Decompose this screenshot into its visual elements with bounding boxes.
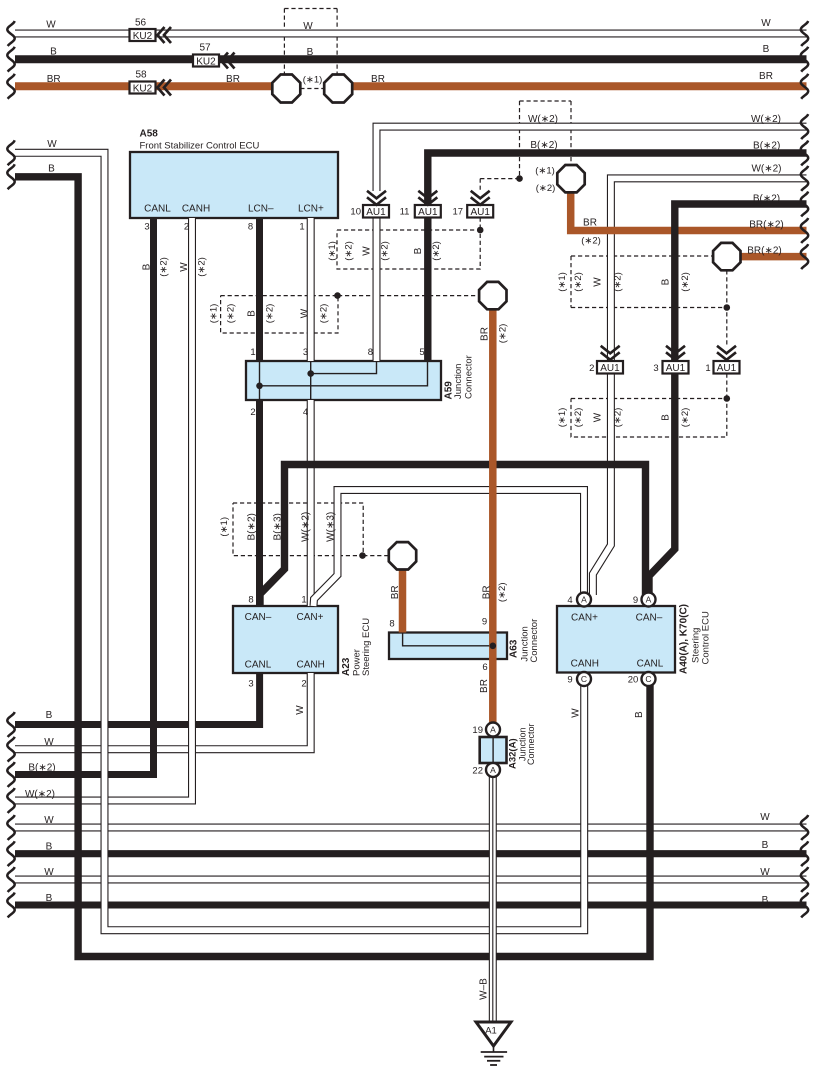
wire B CAN trunk A40 pin9A to A23 pin8 xyxy=(260,465,646,607)
svg-text:W: W xyxy=(47,139,57,150)
svg-text:BR: BR xyxy=(226,74,240,85)
svg-text:A: A xyxy=(581,595,587,605)
A40 pin 20C circle xyxy=(642,672,656,686)
svg-text:10: 10 xyxy=(350,207,361,218)
A32 internal divider xyxy=(492,737,494,763)
connector AU1 pin 11 box xyxy=(415,205,441,218)
wire B from top-left to A40 CANL pin 20C xyxy=(15,177,650,957)
A58 Front Stabilizer Control ECU box xyxy=(130,152,338,218)
dashed option box top right (W(*2)/B(*2)) xyxy=(520,100,572,102)
break squiggle right y=827.5 xyxy=(801,815,808,840)
svg-text:(∗2): (∗2) xyxy=(319,304,330,324)
svg-text:Front Stabilizer Control ECU: Front Stabilizer Control ECU xyxy=(140,141,260,152)
svg-text:2: 2 xyxy=(250,407,255,418)
dashed option box above A23 xyxy=(233,503,363,556)
svg-text:W: W xyxy=(362,246,373,256)
wire BR(*2) short from octagon E3 xyxy=(740,253,806,261)
A63 internal link pin8 to pin9/6 xyxy=(403,633,493,646)
svg-text:B: B xyxy=(246,310,257,317)
svg-text:BR: BR xyxy=(480,327,491,341)
svg-text:B: B xyxy=(142,263,153,270)
svg-text:KU2: KU2 xyxy=(196,56,216,67)
svg-text:4: 4 xyxy=(303,407,308,418)
svg-text:(∗2): (∗2) xyxy=(497,583,508,603)
svg-text:(∗1): (∗1) xyxy=(219,517,230,537)
svg-text:6: 6 xyxy=(482,662,487,673)
svg-text:A58: A58 xyxy=(140,129,159,140)
svg-text:3: 3 xyxy=(144,222,149,233)
svg-text:BR: BR xyxy=(47,74,61,85)
svg-text:3: 3 xyxy=(653,363,658,374)
svg-text:W: W xyxy=(593,412,604,422)
connector AU1 pin 3 box xyxy=(663,361,689,374)
A23 Power Steering ECU box xyxy=(233,606,338,673)
svg-text:17: 17 xyxy=(453,207,464,218)
wire BR long from octagon E2 through A63 to A32 pin 19 xyxy=(489,309,497,723)
junction dot inside A63 xyxy=(490,643,497,650)
svg-text:B: B xyxy=(46,842,53,853)
dashed junction dot at A58 option box corner xyxy=(334,292,341,299)
svg-text:B: B xyxy=(46,893,53,904)
break squiggle right y=153 xyxy=(801,141,808,166)
svg-text:B: B xyxy=(661,414,672,421)
svg-text:AU1: AU1 xyxy=(600,363,620,374)
svg-text:BR: BR xyxy=(759,71,773,82)
svg-text:(∗2): (∗2) xyxy=(581,236,601,247)
svg-text:W(∗2): W(∗2) xyxy=(25,789,55,800)
A59 internal junction dot lower xyxy=(256,383,263,390)
svg-text:B(∗2): B(∗2) xyxy=(246,513,257,540)
svg-text:B: B xyxy=(46,710,53,721)
svg-text:W: W xyxy=(760,812,770,823)
break squiggle right y=33.5 xyxy=(801,21,808,46)
A63 junction connector box xyxy=(389,633,507,660)
break squiggle left y=905 xyxy=(7,893,14,918)
svg-text:A: A xyxy=(490,765,496,775)
svg-text:W: W xyxy=(303,21,313,32)
break squiggle left y=152.8 xyxy=(7,140,14,165)
dashed junction dot below octagon E3 xyxy=(724,304,731,311)
shield octagon E2 mid xyxy=(479,282,506,309)
svg-text:B: B xyxy=(661,278,672,285)
dashed horizontal to AU1 17 xyxy=(480,178,519,180)
svg-text:AU1: AU1 xyxy=(666,363,686,374)
svg-text:(∗2): (∗2) xyxy=(612,272,623,292)
svg-text:W: W xyxy=(295,705,306,715)
dashed stub into AU1 17 chevron xyxy=(479,179,481,191)
svg-text:Connector: Connector xyxy=(529,619,540,663)
svg-text:B: B xyxy=(48,164,55,175)
svg-text:56: 56 xyxy=(135,18,147,29)
svg-text:(∗2): (∗2) xyxy=(197,257,208,277)
svg-text:22: 22 xyxy=(472,765,483,776)
svg-text:C: C xyxy=(581,674,587,684)
svg-text:CANL: CANL xyxy=(637,659,664,670)
svg-text:CAN+: CAN+ xyxy=(297,612,324,623)
connector AU1 pin 1 box xyxy=(714,361,740,374)
dashed link to shield octagon E4 xyxy=(363,555,389,557)
svg-text:4: 4 xyxy=(567,595,572,606)
svg-text:(∗2): (∗2) xyxy=(431,241,442,261)
wire W bus line 7 xyxy=(15,876,807,884)
svg-text:W(∗3): W(∗3) xyxy=(325,512,336,542)
svg-text:(∗2): (∗2) xyxy=(498,324,509,344)
break squiggle right y=230.5 xyxy=(801,218,808,243)
break squiggle left y=853.7 xyxy=(7,841,14,866)
A32(A) junction connector box xyxy=(480,737,507,763)
chevron at KU2 56 xyxy=(158,27,172,43)
svg-text:KU2: KU2 xyxy=(133,31,153,42)
break squiggle left y=774.5 xyxy=(7,762,14,787)
svg-text:B: B xyxy=(762,840,769,851)
svg-text:A: A xyxy=(646,595,652,605)
svg-text:(∗2): (∗2) xyxy=(226,304,237,324)
svg-text:W: W xyxy=(300,308,311,318)
svg-text:W(∗2): W(∗2) xyxy=(528,114,558,125)
svg-text:W: W xyxy=(44,867,54,878)
A40 pin 9C circle xyxy=(577,672,591,686)
break squiggle right y=59.2 xyxy=(801,47,808,72)
dashed stub below AU1 1 xyxy=(726,374,728,399)
svg-text:11: 11 xyxy=(400,207,410,218)
shield octagon E3 right xyxy=(713,243,740,270)
svg-text:BR: BR xyxy=(390,585,401,599)
wire B A58 LCN- pin 8 to A59 pin 1 xyxy=(256,218,263,361)
svg-text:(∗1): (∗1) xyxy=(208,304,219,324)
svg-text:2: 2 xyxy=(589,363,594,374)
break squiggle right y=256.6 xyxy=(801,244,808,269)
wire BR top bus right segment xyxy=(352,82,807,90)
ground A1 symbol xyxy=(476,1022,511,1065)
svg-text:BR: BR xyxy=(583,218,597,229)
svg-text:CANL: CANL xyxy=(245,659,272,670)
svg-text:AU1: AU1 xyxy=(717,363,737,374)
svg-text:B: B xyxy=(762,895,769,906)
connector AU1 pin 10 box xyxy=(363,205,389,218)
A59 internal link pin8 to pin3/4 xyxy=(311,361,377,374)
svg-text:(∗2): (∗2) xyxy=(680,408,691,428)
svg-text:BR(∗2): BR(∗2) xyxy=(747,246,782,257)
wire B A59 pin2 to A23 CAN- pin 8 xyxy=(256,400,263,606)
break squiggle right y=879.5 xyxy=(801,867,808,892)
svg-text:1: 1 xyxy=(301,595,306,606)
A59 junction connector box xyxy=(246,361,441,400)
svg-text:BR: BR xyxy=(371,74,385,85)
svg-text:W(∗2): W(∗2) xyxy=(300,512,311,542)
svg-text:W: W xyxy=(571,708,582,718)
wire W(*2) bus to A58 CANH pin 2 xyxy=(15,218,192,801)
shield octagon right (*1) xyxy=(324,75,352,103)
break squiggle left y=800.5 xyxy=(7,788,14,813)
dashed link between shield octagons xyxy=(300,88,324,90)
svg-text:W–B: W–B xyxy=(479,978,490,1000)
dashed stub below AU1 17 xyxy=(479,218,481,231)
dashed option box around W/B at AU1 10-11 xyxy=(337,230,480,269)
A40 pin 9 circle xyxy=(642,593,656,607)
connector KU2 no.56 box xyxy=(130,29,156,41)
svg-text:CANH: CANH xyxy=(182,204,210,215)
svg-text:CAN–: CAN– xyxy=(245,612,272,623)
A59 internal pin3-pin4 line xyxy=(310,361,312,400)
connector AU1 pin 2 box xyxy=(597,361,623,374)
A59 internal junction dot upper xyxy=(307,370,314,377)
svg-text:W: W xyxy=(44,815,54,826)
wire W A58 LCN+ pin 1 to A59 pin 3 xyxy=(307,218,315,361)
svg-text:20: 20 xyxy=(628,674,639,685)
svg-text:(∗2): (∗2) xyxy=(573,408,584,428)
svg-text:3: 3 xyxy=(303,347,308,358)
svg-text:B: B xyxy=(50,47,57,58)
svg-text:8: 8 xyxy=(368,347,373,358)
svg-text:W: W xyxy=(760,867,770,878)
wire B AU1 11 down to A59 pin 5 xyxy=(424,218,431,362)
svg-text:B(∗2): B(∗2) xyxy=(530,140,557,151)
dashed option box below A58 xyxy=(221,296,338,333)
wire W-B from A32 pin 22 to ground A1 xyxy=(489,777,497,1022)
svg-text:B: B xyxy=(763,44,770,55)
chevron above AU1 11 xyxy=(418,191,437,205)
svg-text:AU1: AU1 xyxy=(418,207,438,218)
svg-text:A1: A1 xyxy=(485,1026,497,1037)
A32 pin 22 circle xyxy=(486,763,500,777)
chevron at KU2 58 xyxy=(158,80,172,96)
wire BR from octagon E4 to A63 pin 8 xyxy=(399,569,407,632)
wire B bus line 6 xyxy=(15,850,807,857)
svg-text:A40(A), K70(C): A40(A), K70(C) xyxy=(679,604,690,674)
svg-text:Control ECU: Control ECU xyxy=(701,611,712,664)
svg-text:5: 5 xyxy=(419,347,424,358)
svg-text:B(∗3): B(∗3) xyxy=(273,513,284,540)
break squiggle left y=827.5 xyxy=(7,815,14,840)
svg-text:(∗2): (∗2) xyxy=(344,241,355,261)
wire B bus to A23 CANL pin 3 xyxy=(15,673,260,725)
svg-text:C: C xyxy=(645,674,651,684)
dashed left edge box right-mid xyxy=(570,256,572,308)
break squiggle left y=724.5 xyxy=(7,712,14,737)
svg-text:Steering ECU: Steering ECU xyxy=(361,618,372,676)
shield octagon E1 (*1)(*2) xyxy=(557,165,584,192)
chevron above AU1 3 xyxy=(666,346,685,360)
dashed top edge to octagon E3 xyxy=(571,255,713,257)
A59 internal pin1-pin2 line xyxy=(259,361,261,400)
chevron at KU2 57 xyxy=(221,53,235,69)
svg-text:BR: BR xyxy=(482,585,493,599)
svg-text:B(∗2): B(∗2) xyxy=(753,141,780,152)
svg-text:BR: BR xyxy=(479,679,490,693)
shield octagon left (*1) xyxy=(272,75,300,103)
dashed vertical to shield octagon left xyxy=(283,9,285,75)
wire W top bus xyxy=(15,30,807,38)
svg-text:(∗1): (∗1) xyxy=(327,241,338,261)
connector KU2 no.58 box xyxy=(130,82,156,94)
wire B top bus xyxy=(15,55,807,63)
svg-text:CAN–: CAN– xyxy=(636,613,663,624)
dashed junction dot below AU1 1 xyxy=(724,395,731,402)
break squiggle left y=749.2 xyxy=(7,737,14,762)
dashed junction dot at A23 option box corner xyxy=(359,552,366,559)
svg-text:(∗2): (∗2) xyxy=(612,408,623,428)
svg-text:57: 57 xyxy=(199,43,211,54)
dashed option box at AU1 2-3-1 lower xyxy=(571,399,727,438)
svg-text:LCN–: LCN– xyxy=(248,204,274,215)
svg-text:(∗2): (∗2) xyxy=(159,257,170,277)
A32 pin 19 circle xyxy=(486,723,500,737)
wire BR(*2) right bus to octagon E1 xyxy=(571,193,807,231)
svg-text:Junction: Junction xyxy=(453,364,464,399)
svg-text:8: 8 xyxy=(389,619,394,630)
svg-text:9: 9 xyxy=(567,674,572,685)
svg-text:LCN+: LCN+ xyxy=(298,204,324,215)
svg-text:BR(∗2): BR(∗2) xyxy=(749,220,784,231)
break squiggle left y=879.5 xyxy=(7,867,14,892)
svg-text:58: 58 xyxy=(135,70,147,81)
A40(A)/K70(C) Steering Control ECU box xyxy=(557,606,675,673)
wire W bus line 5 xyxy=(15,824,807,832)
dashed vertical to shield octagon right xyxy=(336,9,338,75)
wire W AU1 10 down to A59 pin 8 xyxy=(373,218,381,362)
svg-text:B(∗2): B(∗2) xyxy=(753,194,780,205)
svg-text:B: B xyxy=(634,711,645,718)
svg-text:CANH: CANH xyxy=(571,659,599,670)
svg-text:9: 9 xyxy=(482,617,487,628)
break squiggle right y=204 xyxy=(801,192,808,217)
dashed vertical to octagon E1 xyxy=(570,101,572,165)
A59 internal link pin5 to pin1/2 xyxy=(260,361,428,386)
svg-text:(∗2): (∗2) xyxy=(536,183,556,194)
dashed bottom edge box right-mid xyxy=(571,307,727,309)
wire BR top bus left segment xyxy=(15,82,273,90)
svg-text:B: B xyxy=(307,47,314,58)
svg-text:3: 3 xyxy=(248,679,253,690)
svg-text:CAN+: CAN+ xyxy=(571,613,598,624)
svg-text:W: W xyxy=(179,262,190,272)
connector AU1 pin 17 box xyxy=(467,205,493,218)
shield octagon E4 near A23 xyxy=(389,542,416,569)
svg-text:(∗1): (∗1) xyxy=(557,408,568,428)
svg-text:A63: A63 xyxy=(509,639,520,658)
wire W bus to A23 CANH pin 2 xyxy=(15,673,311,749)
svg-text:1: 1 xyxy=(705,363,710,374)
svg-text:AU1: AU1 xyxy=(470,207,490,218)
wire B(*2) right edge down to A40 CAN- pin 9A xyxy=(649,204,807,595)
chevron above AU1 10 xyxy=(367,191,386,205)
svg-text:Connector: Connector xyxy=(464,355,475,399)
svg-text:W: W xyxy=(46,20,56,31)
svg-text:B(∗2): B(∗2) xyxy=(28,763,55,774)
svg-text:AU1: AU1 xyxy=(366,207,386,218)
svg-text:W(∗2): W(∗2) xyxy=(751,164,781,175)
svg-text:W: W xyxy=(761,18,771,29)
break squiggle left y=176.8 xyxy=(7,164,14,189)
svg-text:9: 9 xyxy=(633,595,638,606)
svg-text:W: W xyxy=(44,737,54,748)
break squiggle right y=853.7 xyxy=(801,841,808,866)
dashed junction dot above AU1 17 xyxy=(516,175,523,182)
wire W CAN trunk A40 pin4A to A23 pin1 xyxy=(314,490,585,606)
svg-text:A23: A23 xyxy=(341,657,352,676)
break squiggle right y=178.4 xyxy=(801,166,808,191)
svg-text:(∗2): (∗2) xyxy=(380,241,391,261)
svg-text:(∗2): (∗2) xyxy=(573,272,584,292)
svg-text:2: 2 xyxy=(301,679,306,690)
svg-text:8: 8 xyxy=(248,595,253,606)
svg-text:W(∗2): W(∗2) xyxy=(751,114,781,125)
chevron above AU1 1 xyxy=(717,346,736,360)
svg-text:(∗2): (∗2) xyxy=(265,304,276,324)
svg-text:1: 1 xyxy=(299,222,304,233)
wire W(*2) from AU1 10 to right edge xyxy=(377,127,807,191)
break squiggle right y=86.3 xyxy=(801,74,808,99)
dashed junction dot at option box corner xyxy=(477,227,484,234)
svg-text:(∗1): (∗1) xyxy=(303,75,323,86)
svg-text:W: W xyxy=(593,277,604,287)
break squiggle right y=905 xyxy=(801,893,808,918)
wire B(*2) from AU1 11 to right edge xyxy=(428,153,807,205)
A40 pin 4 circle xyxy=(577,593,591,607)
connector KU2 no.57 box xyxy=(193,55,219,67)
wire B bus line 8 xyxy=(15,902,807,909)
svg-text:CANL: CANL xyxy=(144,204,171,215)
dashed vertical left xyxy=(519,101,521,179)
svg-text:2: 2 xyxy=(184,222,189,233)
svg-text:KU2: KU2 xyxy=(133,83,153,94)
dashed vertical octagon E3 to AU1 1 xyxy=(726,270,728,345)
break squiggle left y=86.3 xyxy=(7,74,14,99)
chevron above AU1 17 xyxy=(471,191,490,205)
svg-text:B: B xyxy=(413,247,424,254)
chevron above AU1 2 xyxy=(601,346,620,360)
break squiggle right y=126.6 xyxy=(801,114,808,139)
svg-text:A: A xyxy=(490,725,496,735)
wire B(*2) bus to A58 CANL pin 3 xyxy=(15,218,154,775)
wire W A59 pin4 to A23 CAN+ pin 1 xyxy=(307,400,315,606)
svg-text:(∗1): (∗1) xyxy=(535,166,555,177)
svg-text:(∗1): (∗1) xyxy=(557,272,568,292)
wire W(*2) right edge down to A40 CAN+ pin 4A xyxy=(593,178,807,595)
svg-text:8: 8 xyxy=(248,222,253,233)
svg-text:Connector: Connector xyxy=(526,723,536,765)
svg-text:(∗2): (∗2) xyxy=(680,272,691,292)
break squiggle left y=33.5 xyxy=(7,21,14,46)
svg-text:CANH: CANH xyxy=(297,659,325,670)
dashed option box top (W/B alternates) xyxy=(284,8,337,10)
svg-text:1: 1 xyxy=(250,347,255,358)
svg-text:19: 19 xyxy=(472,725,483,736)
break squiggle left y=59.2 xyxy=(7,47,14,72)
dashed link to shield octagon E2 xyxy=(338,295,479,297)
wire W from top-left to A40 CANH pin 9C xyxy=(15,153,584,930)
